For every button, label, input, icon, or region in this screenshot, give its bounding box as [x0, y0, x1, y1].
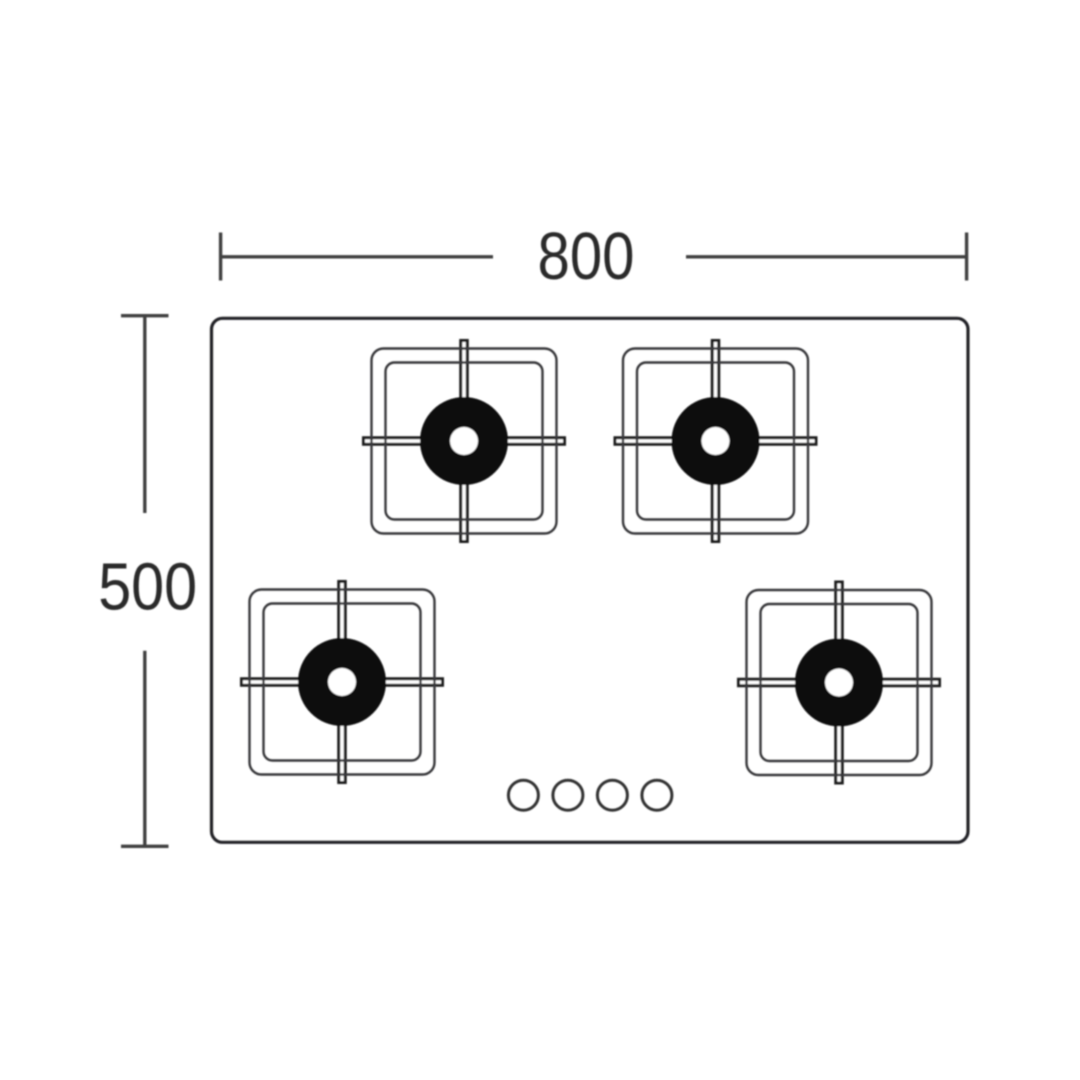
svg-text:800: 800 — [538, 219, 635, 294]
control knob 2 — [553, 780, 583, 810]
dimension 500: bottom segment — [143, 651, 146, 847]
dimension 500: bottom tick — [121, 845, 169, 848]
burner top-left — [364, 341, 565, 542]
dimension 800: left tick — [219, 233, 222, 281]
dimension 800: left segment — [221, 255, 493, 258]
control knob 3 — [597, 780, 627, 810]
burner top-right — [615, 341, 816, 542]
burner bottom-left — [242, 582, 443, 783]
control knob 1 — [508, 780, 538, 810]
dimension 500: top tick — [121, 314, 169, 317]
svg-text:500: 500 — [98, 550, 197, 625]
dimension 500: top segment — [143, 316, 146, 513]
control knob 4 — [642, 780, 672, 810]
dimension 800: right segment — [686, 255, 967, 258]
burner bottom-right — [739, 582, 940, 783]
dimension 800: right tick — [965, 233, 968, 281]
hob top panel outline — [212, 318, 969, 842]
